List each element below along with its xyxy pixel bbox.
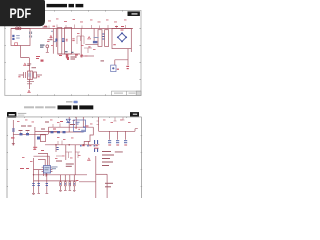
svg-text:PDF: PDF [10,5,32,21]
